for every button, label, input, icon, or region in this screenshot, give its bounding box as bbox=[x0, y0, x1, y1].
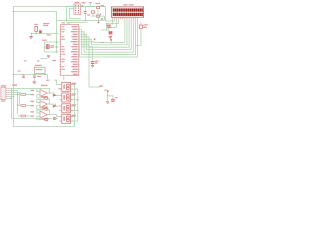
ground below crystal bbox=[47, 55, 50, 56]
IC1 name/value labels bbox=[62, 22, 66, 23]
wire IC pin to GND label bbox=[81, 44, 101, 87]
LCD1 character cells row2 bbox=[113, 13, 115, 16]
op-amp IC2C triangle bbox=[40, 111, 47, 118]
LCD1 label bbox=[123, 4, 127, 5]
wire IC1 bottom to OK1 bbox=[63, 76, 65, 80]
label left of trimmer bbox=[87, 14, 90, 15]
net arrow OK2 input bbox=[53, 94, 56, 96]
wire net stub y=58.4 bbox=[40, 57, 47, 59]
regulator IC3 box bbox=[34, 67, 45, 73]
feedback diode IC2C bbox=[45, 118, 48, 121]
wire cluster horizontal bbox=[101, 29, 109, 31]
ground below P1 bbox=[106, 100, 109, 103]
pin dot bbox=[98, 22, 100, 23]
label SV1 bbox=[1, 85, 6, 86]
label left of rail bbox=[18, 71, 21, 72]
feedback diode IC2B bbox=[45, 108, 48, 111]
IC1 right pin stubs bbox=[79, 26, 80, 28]
wire SV1 pin2 bbox=[9, 90, 18, 92]
LCD1 pin stubs bbox=[111, 17, 113, 19]
wire inputs IC2C bbox=[37, 112, 40, 114]
wire P1 down bbox=[107, 92, 109, 101]
OK3 internal symbol bbox=[64, 106, 65, 110]
label GND near pin bbox=[52, 60, 56, 61]
OK3 pin stubs bbox=[59, 105, 61, 107]
wire OK right pins upper bbox=[73, 88, 78, 90]
net pin mark B bbox=[110, 39, 112, 41]
wire cluster vertical a bbox=[106, 24, 108, 31]
label P1 bbox=[104, 90, 106, 91]
bus wire y=20.9 bbox=[57, 20, 105, 22]
wire SV1 pin4 bbox=[9, 94, 18, 96]
wire inputs IC2B bbox=[37, 102, 40, 104]
wire LCD pin2 to VCC drop bbox=[106, 7, 115, 22]
OK3 label bbox=[72, 104, 77, 105]
junction bbox=[107, 95, 108, 96]
wire crystal rung bottom bbox=[45, 51, 59, 53]
label C5 bbox=[115, 97, 118, 98]
ground below C4 bbox=[91, 64, 94, 67]
wire bus IC1 to LCD (7 lines) bbox=[79, 20, 137, 58]
optocoupler OK2 body bbox=[62, 93, 71, 102]
header JP1 label bbox=[75, 2, 80, 3]
optocoupler OK3 body bbox=[62, 104, 71, 113]
op-amp IC2B label bbox=[41, 96, 47, 97]
label below SV1 bbox=[1, 100, 5, 101]
op-amp IC2A triangle bbox=[40, 90, 47, 97]
wire vertical x=17.2 bbox=[17, 91, 19, 115]
input labels IC2C bbox=[31, 111, 34, 112]
label C4 bbox=[95, 61, 99, 62]
wire SV1 pin6 bbox=[9, 98, 12, 100]
feedback bottom wire IC2B bbox=[37, 106, 45, 109]
LED1 bbox=[140, 25, 143, 29]
pin P1 bbox=[107, 90, 109, 92]
wire crystal right rail bbox=[56, 21, 58, 53]
capacitor C3 polarized bbox=[109, 31, 113, 34]
IC1 right pin name texts bbox=[71, 26, 77, 27]
wire LCD pin5 down-left bbox=[107, 20, 119, 24]
capacitor C4 on IC pin bbox=[81, 47, 93, 61]
wire LCD pin1 down bbox=[111, 20, 113, 24]
label RESET on net bbox=[47, 34, 52, 35]
wire trimmer to bus bbox=[103, 16, 105, 20]
junction at frame/VCC bbox=[13, 11, 14, 12]
label above crystal bbox=[42, 40, 47, 41]
power flag +5V symbol bbox=[89, 2, 92, 4]
wire OK1 left pin up-left bbox=[54, 80, 62, 84]
net pin mark A bbox=[94, 39, 96, 41]
wire IC3 pins to rail bbox=[36, 73, 38, 74]
connector SV1 body bbox=[1, 87, 6, 99]
label Q1 bbox=[51, 45, 55, 46]
resistor R2 top bbox=[97, 6, 100, 8]
feedback bottom wire IC2C bbox=[37, 116, 45, 119]
label LED1 bbox=[144, 24, 148, 25]
wire left vertical x=11.3 with bottom run y=119 bbox=[12, 89, 54, 119]
capacitor C6 bbox=[22, 75, 25, 78]
label below trimmer bbox=[101, 18, 104, 20]
wire OK right column to GND loop bbox=[74, 85, 76, 127]
label left of OK1 bbox=[58, 88, 60, 89]
wire branch right bbox=[108, 96, 113, 99]
wire SV1 pin5 bbox=[9, 96, 14, 98]
wire crystal left rail bbox=[44, 42, 46, 52]
OK1 pin stubs bbox=[59, 84, 61, 86]
LCD1 character cells row1 bbox=[113, 8, 115, 11]
header JP1 box bbox=[74, 4, 81, 15]
trimmer R4 contrast bbox=[97, 15, 100, 17]
wire SV1 pin3 bbox=[9, 92, 21, 94]
wire trimmer to gnd dot bbox=[98, 17, 100, 22]
wire LCD pin4 down-left bbox=[109, 20, 117, 28]
label IC3 bbox=[35, 65, 42, 66]
wire LED1 top bbox=[140, 22, 142, 25]
wire +5V rail bbox=[14, 74, 48, 76]
wire vertical x=19.5 bbox=[19, 93, 21, 105]
label VCC near header bbox=[82, 2, 86, 3]
feedback loop wire IC2A bbox=[37, 88, 50, 93]
label R2 bbox=[95, 3, 100, 4]
OK4 label bbox=[72, 115, 77, 116]
SV1 hatch bbox=[1, 87, 5, 90]
label tiny right bbox=[37, 60, 40, 61]
input resistor R2 bbox=[21, 105, 26, 107]
input labels IC2A bbox=[31, 90, 34, 91]
optocoupler OK4 body bbox=[62, 114, 71, 123]
ground below C3 bbox=[109, 35, 112, 38]
OK2 internal symbol bbox=[64, 95, 65, 99]
OK4 internal symbol bbox=[64, 117, 65, 121]
wire JP1 right to VCC bbox=[81, 6, 106, 8]
SV1 pin stubs bbox=[6, 88, 9, 90]
IC1 left pin name texts bbox=[61, 26, 64, 27]
label GND right bbox=[99, 85, 103, 86]
OK4 pin stubs bbox=[59, 116, 61, 118]
wire reset net to IC1 bbox=[32, 33, 59, 35]
wire LED1 to bus bbox=[135, 29, 141, 45]
net arrow OK3 input bbox=[53, 105, 56, 107]
ground below C7 bbox=[33, 78, 35, 81]
label VCC above R1 bbox=[34, 24, 38, 25]
op-amp IC2B triangle bbox=[40, 101, 47, 108]
wire R1 to reset net bbox=[35, 31, 37, 33]
wire to GND below reset bbox=[31, 34, 33, 37]
feedback loop wire IC2C bbox=[37, 110, 50, 115]
wire IC2A output to OK2 bbox=[47, 93, 59, 95]
ground below reset bbox=[29, 36, 33, 37]
wire SV1 pin1 bbox=[9, 88, 37, 90]
IC1 left pin stubs bbox=[59, 26, 60, 28]
OK1 label bbox=[72, 83, 77, 84]
wire trimmer wiper rail bbox=[91, 15, 105, 17]
wire JP1 pin to IC (left b) bbox=[70, 8, 82, 18]
wire crystal rung top bbox=[45, 41, 59, 43]
wire inputs IC2A bbox=[37, 90, 40, 92]
wire R2 to trimmer bbox=[97, 9, 99, 15]
pin stub arrow on bottom wire bbox=[54, 117, 57, 120]
input resistor R3 bbox=[21, 115, 26, 117]
pin dot on VCC wire bbox=[82, 5, 83, 6]
wire GND loop (top/left/bottom) bbox=[14, 7, 106, 127]
labels right of R1 bbox=[43, 23, 49, 24]
label C7 bbox=[37, 76, 41, 77]
wire IC2B output to OK3 bbox=[47, 104, 59, 106]
wire bottom net y=119 bbox=[54, 118, 58, 120]
OK2 label bbox=[72, 93, 77, 94]
label on bus bbox=[101, 42, 104, 43]
wire stub below mark B bbox=[110, 41, 112, 44]
wire JP1 pin to IC (left a) bbox=[67, 6, 74, 21]
resistor R1 (reset pull-up) bbox=[35, 27, 38, 32]
resistor R3 (left small) bbox=[91, 11, 94, 13]
OK2 pin stubs bbox=[59, 94, 61, 96]
wire LCD pin3 down bbox=[111, 20, 113, 25]
label tiny left bbox=[24, 60, 27, 61]
diode D1 on reset net bbox=[39, 30, 42, 33]
capacitor C near JP1 bbox=[84, 10, 87, 13]
feedback diode IC2A bbox=[45, 97, 48, 100]
label +5V bottom left bbox=[12, 84, 17, 85]
wire rail right end down bbox=[47, 75, 49, 80]
feedback loop wire IC2B bbox=[37, 100, 50, 105]
wire crystal rung mid bbox=[45, 46, 59, 48]
capacitor C2 bbox=[107, 25, 111, 26]
wire VCC run y=11.5 bbox=[14, 12, 57, 21]
wire IC2C output to OK4 bbox=[47, 115, 59, 117]
label at rail end bbox=[46, 80, 49, 81]
OK1 internal symbol bbox=[64, 85, 65, 89]
optocoupler OK1 body bbox=[62, 82, 71, 91]
input resistor R1 bbox=[21, 94, 26, 96]
wire cluster vertical b bbox=[108, 28, 110, 32]
input labels IC2B bbox=[31, 101, 34, 102]
display LCD1 body bbox=[111, 7, 143, 17]
header JP1 pads bbox=[75, 5, 76, 6]
op-amp IC2A label bbox=[41, 85, 47, 86]
bus wire y=23 bbox=[67, 22, 88, 24]
feedback bottom wire IC2A bbox=[37, 95, 45, 98]
crystal Q1 bbox=[46, 45, 49, 49]
capacitor C5 bbox=[111, 99, 115, 100]
IC IC1 body bbox=[61, 24, 79, 75]
op-amp IC2C label bbox=[41, 106, 47, 107]
capacitor C7 bbox=[33, 75, 36, 78]
